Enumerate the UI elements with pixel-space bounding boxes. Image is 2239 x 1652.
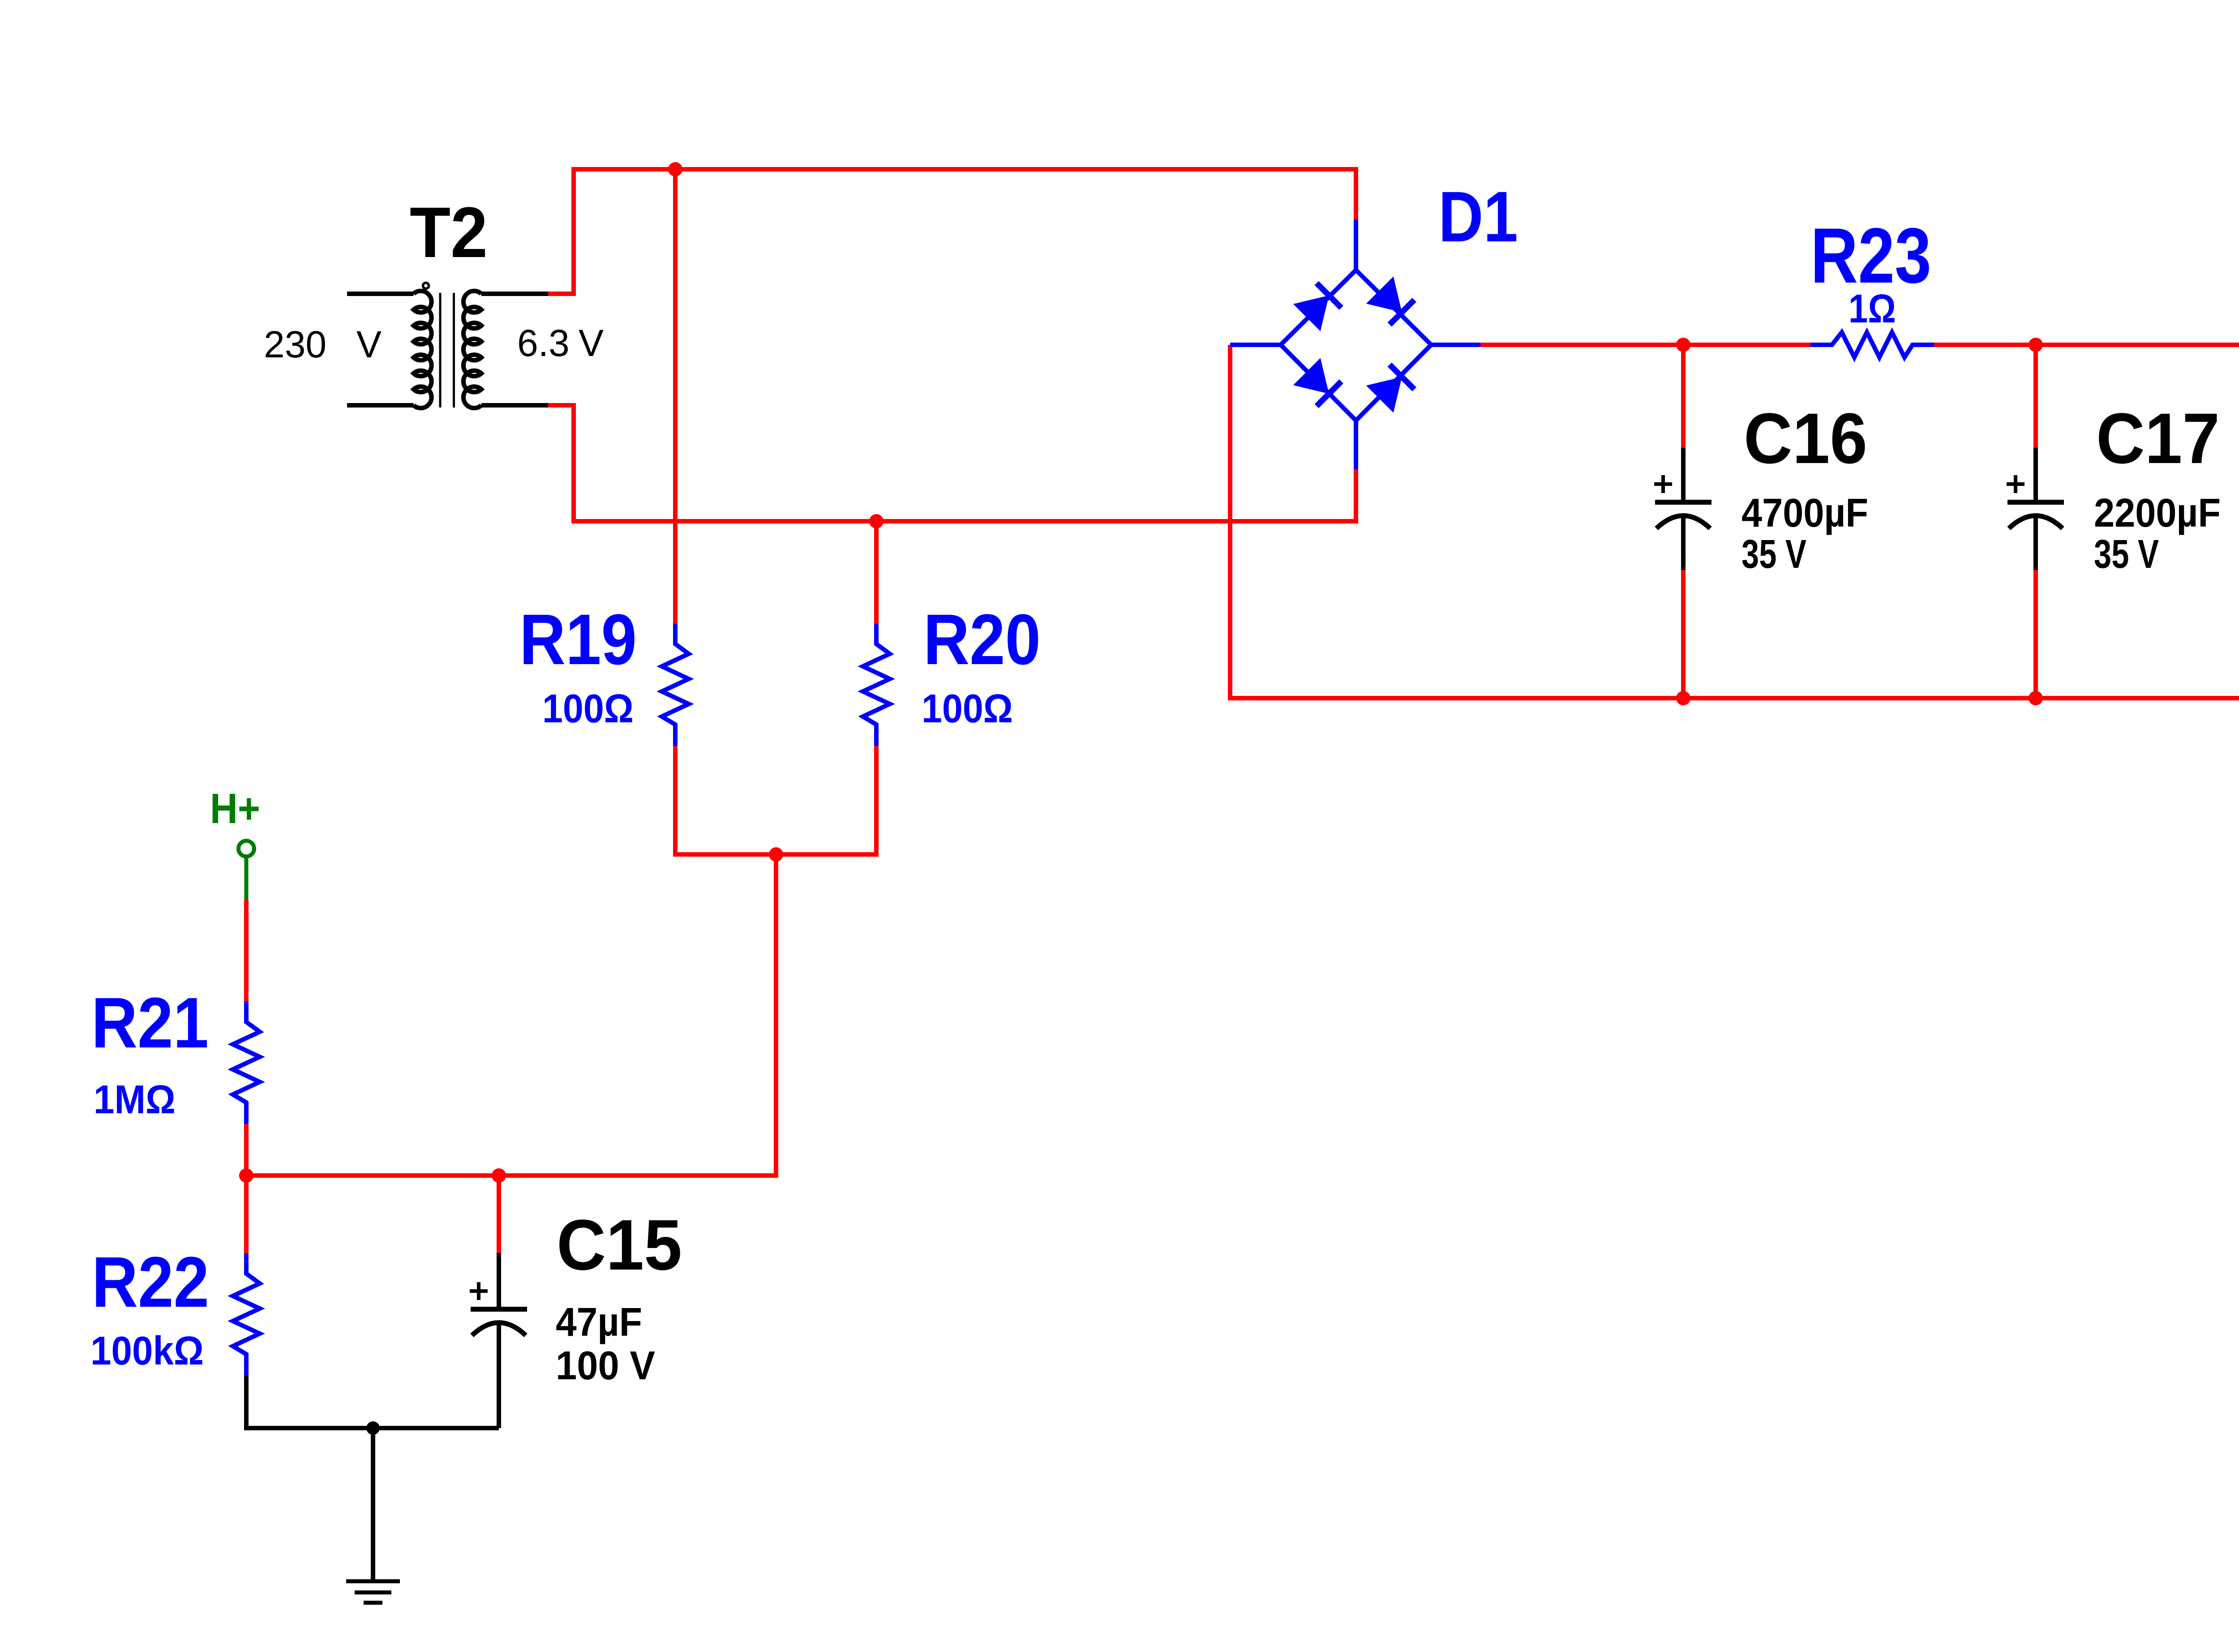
svg-text:100kΩ: 100kΩ: [90, 1329, 204, 1373]
svg-text:C17: C17: [2096, 398, 2220, 478]
svg-text:47µF: 47µF: [556, 1300, 642, 1345]
svg-text:100Ω: 100Ω: [542, 687, 634, 731]
svg-text:R20: R20: [923, 599, 1041, 679]
svg-text:6.3: 6.3: [517, 322, 570, 364]
svg-text:T2: T2: [410, 192, 488, 272]
svg-text:H+: H+: [210, 785, 260, 832]
svg-text:100Ω: 100Ω: [922, 687, 1013, 731]
svg-text:C15: C15: [557, 1205, 682, 1285]
svg-text:35 V: 35 V: [2094, 532, 2159, 577]
svg-text:100 V: 100 V: [556, 1343, 655, 1388]
svg-text:D1: D1: [1438, 176, 1518, 257]
svg-text:230: 230: [264, 323, 326, 365]
svg-text:C16: C16: [1744, 398, 1867, 478]
svg-text:35 V: 35 V: [1741, 532, 1806, 577]
svg-text:1MΩ: 1MΩ: [94, 1077, 176, 1122]
svg-text:1Ω: 1Ω: [1849, 287, 1896, 331]
svg-text:V: V: [579, 322, 604, 364]
svg-text:4700µF: 4700µF: [1741, 491, 1868, 536]
svg-text:V: V: [356, 323, 382, 365]
svg-text:R19: R19: [519, 599, 637, 679]
svg-text:2200µF: 2200µF: [2094, 491, 2221, 536]
svg-text:R22: R22: [92, 1242, 209, 1322]
svg-text:R21: R21: [91, 983, 209, 1063]
